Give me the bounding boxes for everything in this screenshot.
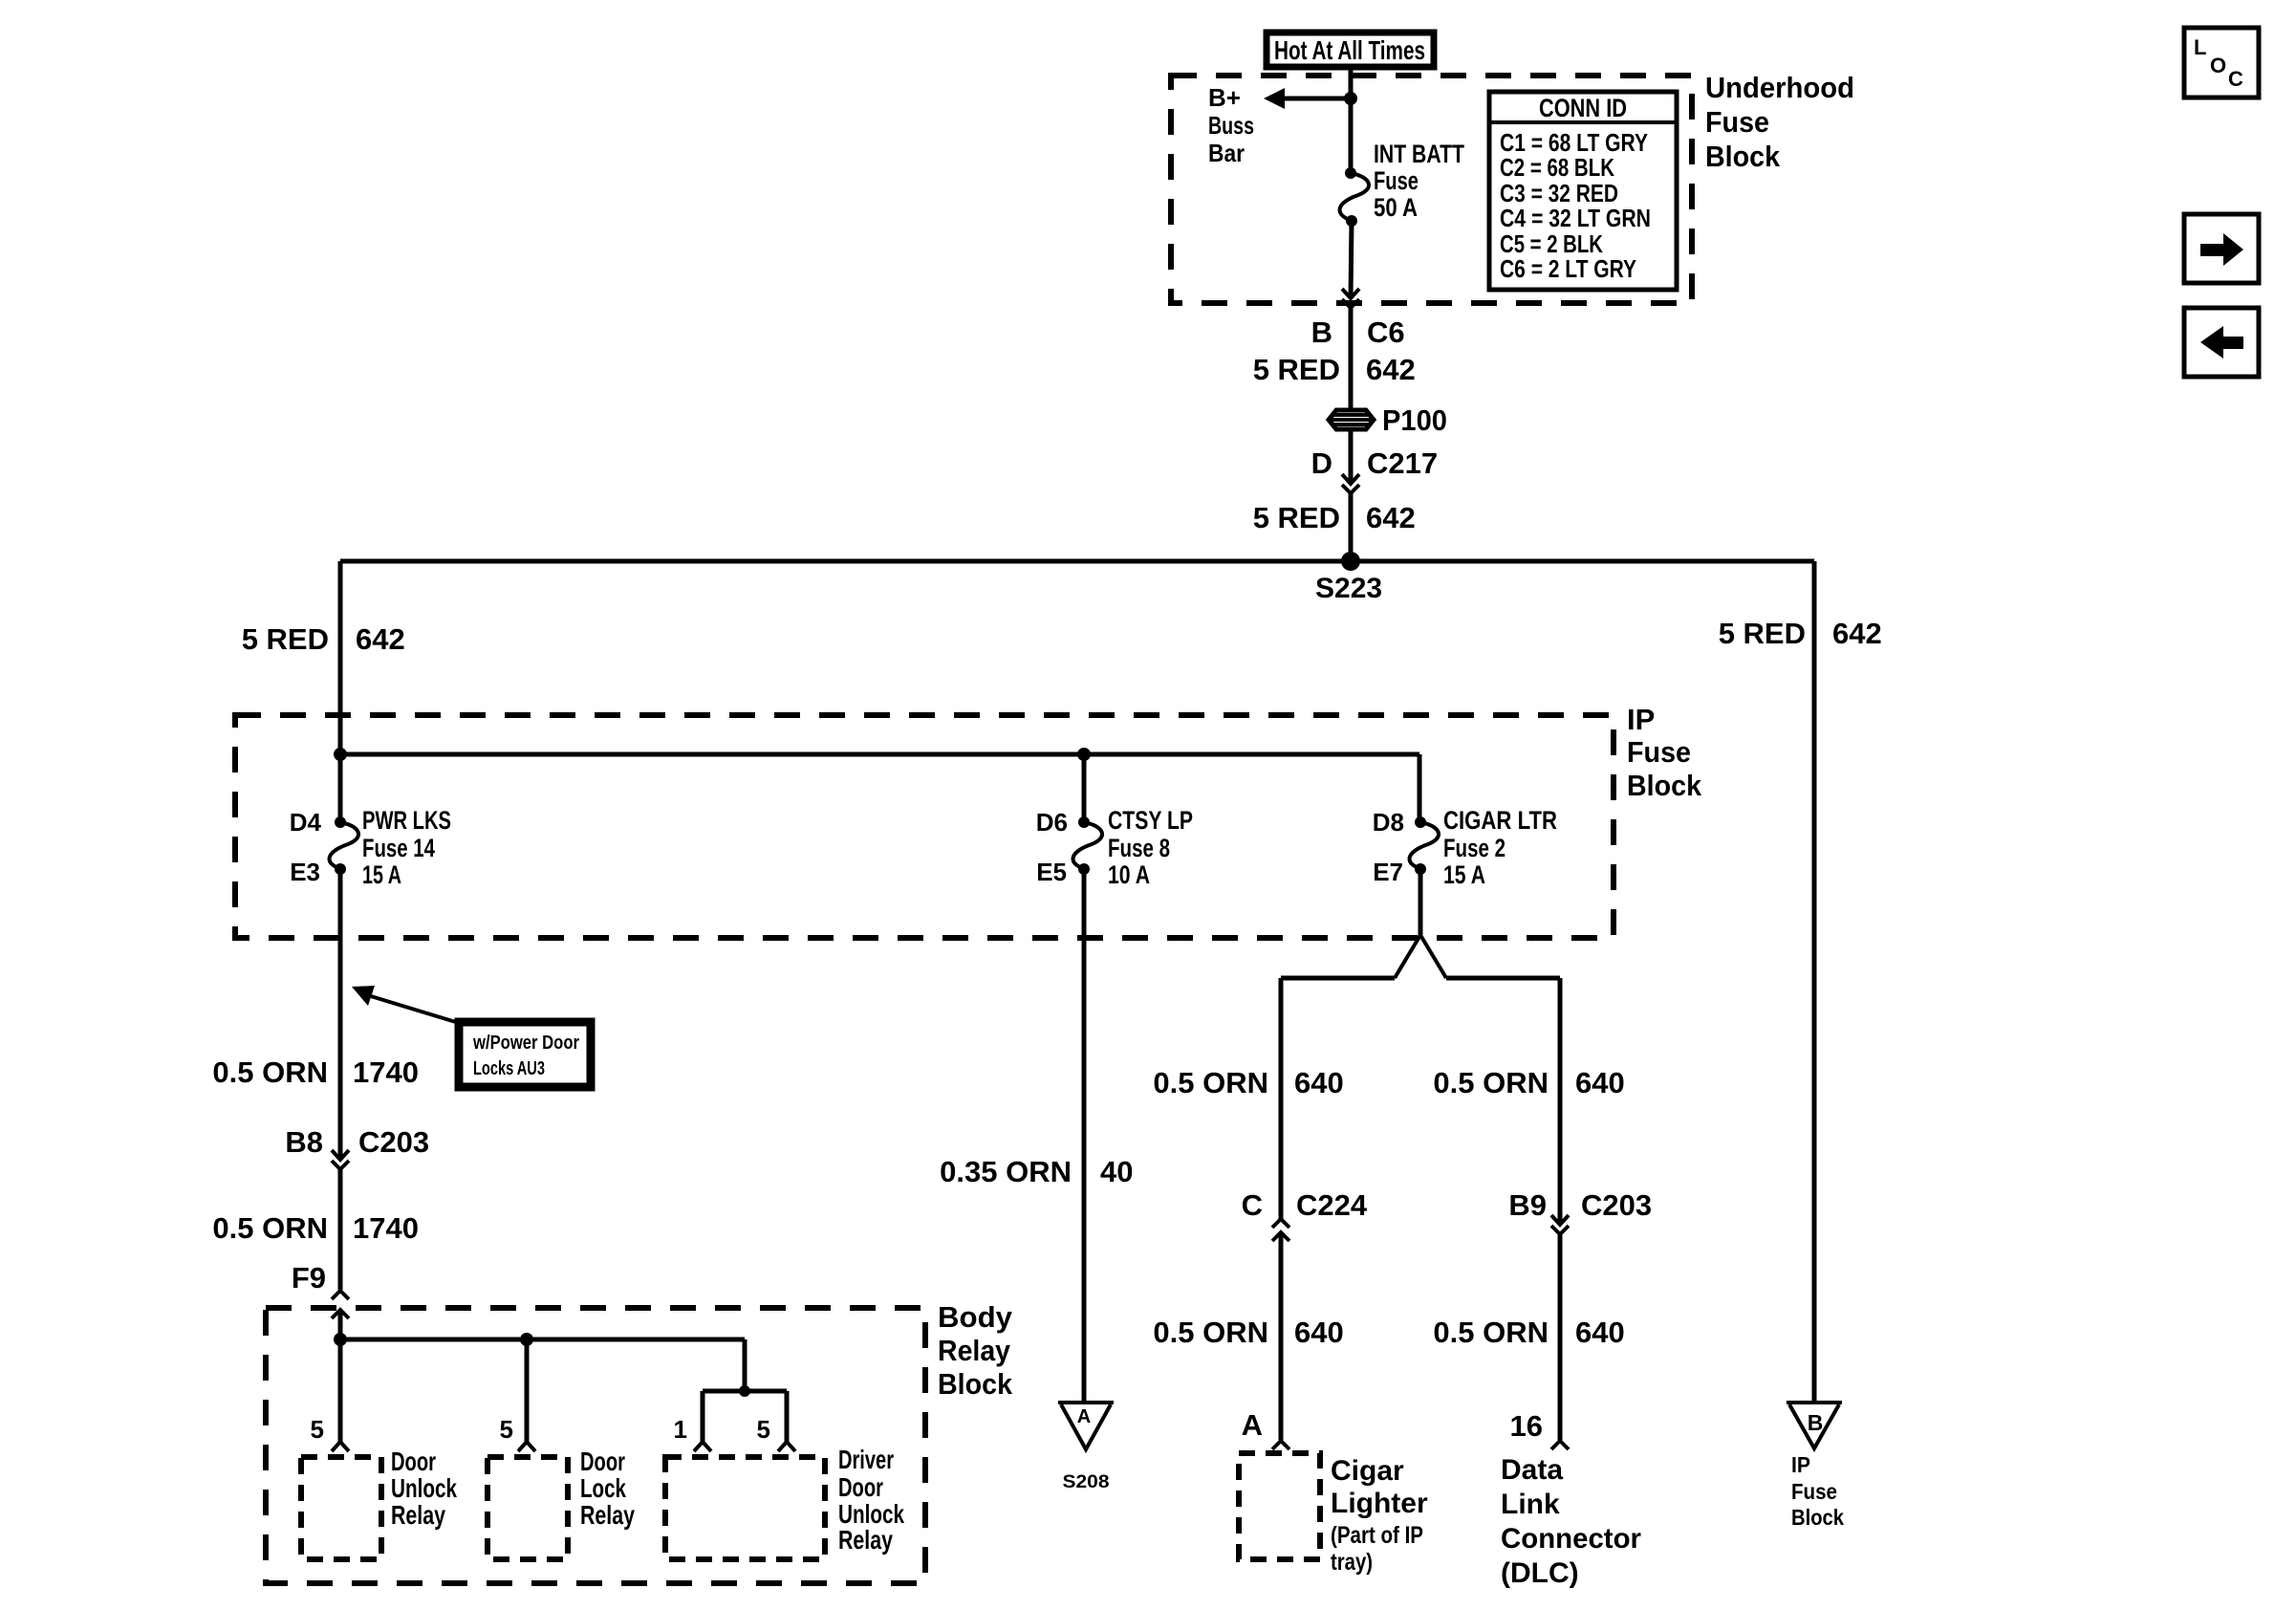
svg-text:10 A: 10 A — [1108, 860, 1150, 889]
Hot At All Times box — [1267, 33, 1434, 67]
svg-text:Fuse 8: Fuse 8 — [1108, 834, 1170, 862]
right branch wire from S223 — [1812, 561, 1817, 1403]
arrow callout to w/Power Door Locks AU3 — [352, 986, 591, 1087]
svg-text:5: 5 — [311, 1415, 324, 1444]
svg-text:Data: Data — [1501, 1454, 1563, 1486]
svg-text:Locks AU3: Locks AU3 — [473, 1058, 545, 1079]
svg-text:640: 640 — [1575, 1316, 1625, 1349]
svg-text:Connector: Connector — [1501, 1523, 1641, 1555]
svg-text:O: O — [2210, 54, 2226, 77]
svg-text:Fuse: Fuse — [1627, 735, 1691, 769]
svg-text:C6 = 2 LT GRY: C6 = 2 LT GRY — [1500, 254, 1636, 283]
connector C / C224 (reversed) — [1242, 1188, 1368, 1440]
connector B9 / C203 — [1508, 1188, 1652, 1440]
Door Lock Relay dashed box — [487, 1447, 635, 1559]
svg-text:D6: D6 — [1036, 808, 1068, 837]
wire label 0.5 ORN 1740 (lower) — [212, 1211, 419, 1245]
svg-text:0.5 ORN: 0.5 ORN — [1433, 1316, 1549, 1349]
Data Link Connector label — [1501, 1454, 1641, 1589]
svg-text:640: 640 — [1575, 1066, 1625, 1099]
B+ buss bar arrow — [1208, 83, 1357, 167]
svg-text:Link: Link — [1501, 1489, 1560, 1520]
svg-text:IP: IP — [1627, 703, 1655, 736]
svg-text:B8: B8 — [285, 1125, 323, 1159]
svg-text:C4 = 32 LT GRN: C4 = 32 LT GRN — [1500, 204, 1651, 232]
svg-text:Cigar: Cigar — [1331, 1455, 1404, 1487]
svg-text:1: 1 — [674, 1415, 687, 1444]
svg-text:CONN ID: CONN ID — [1539, 94, 1627, 122]
svg-text:Driver: Driver — [838, 1445, 894, 1474]
svg-text:E5: E5 — [1036, 858, 1067, 886]
CONN ID table — [1489, 92, 1677, 290]
terminal 16 into DLC — [1510, 1409, 1569, 1449]
IP Fuse Block label — [1627, 703, 1702, 802]
wire to Door Unlock Relay pin 5 — [311, 1339, 349, 1451]
Driver Door Unlock Relay dashed box — [665, 1445, 904, 1559]
Cigar Lighter dashed box — [1239, 1453, 1428, 1576]
body relay internal bus — [334, 1333, 787, 1397]
wire to Door Lock Relay pin 5 — [500, 1339, 535, 1451]
svg-text:Lock: Lock — [580, 1473, 626, 1503]
svg-text:Fuse: Fuse — [1374, 166, 1419, 195]
svg-text:F9: F9 — [292, 1261, 326, 1295]
svg-text:0.5 ORN: 0.5 ORN — [1153, 1066, 1268, 1099]
svg-text:CIGAR LTR: CIGAR LTR — [1443, 806, 1557, 835]
svg-text:0.5 ORN: 0.5 ORN — [1153, 1316, 1268, 1349]
svg-text:C: C — [2228, 67, 2243, 91]
svg-text:(DLC): (DLC) — [1501, 1557, 1579, 1589]
svg-text:642: 642 — [1366, 501, 1416, 534]
svg-text:640: 640 — [1294, 1316, 1344, 1349]
connector B8 / C203 — [285, 1125, 429, 1290]
Door Unlock Relay dashed box — [301, 1447, 457, 1559]
left-arrow legend box — [2184, 308, 2259, 377]
wire label 0.5 ORN 640 (cigar lower) — [1153, 1316, 1343, 1349]
wire from Hot At All Times down to fuse — [1349, 67, 1354, 173]
svg-text:E7: E7 — [1373, 858, 1403, 886]
svg-text:L: L — [2194, 35, 2206, 59]
svg-text:A: A — [1242, 1408, 1263, 1442]
svg-text:Body: Body — [938, 1300, 1013, 1334]
fuse CIGAR LTR Fuse 2 15 A — [1373, 806, 1557, 889]
svg-text:Fuse: Fuse — [1791, 1479, 1837, 1504]
svg-text:E3: E3 — [290, 858, 320, 886]
svg-text:0.5 ORN: 0.5 ORN — [1433, 1066, 1549, 1099]
wire label 0.35 ORN 40 — [940, 1155, 1133, 1188]
svg-text:Block: Block — [1705, 140, 1781, 173]
connector D / C217 — [1311, 430, 1439, 493]
svg-text:Fuse: Fuse — [1705, 105, 1769, 139]
svg-text:Relay: Relay — [391, 1500, 445, 1530]
fuse CTSY LP Fuse 8 10 A — [1036, 754, 1193, 889]
Underhood Fuse Block dashed box — [1171, 76, 1692, 303]
left wire label 5 RED 642 — [242, 622, 405, 656]
connector B / C6 (arrow + chevron through box edge) — [1311, 289, 1405, 409]
wire below CIGAR fuse with Y split — [1281, 869, 1560, 978]
DLC branch wire — [1558, 978, 1563, 1225]
wire label 5 RED 642 (lower) — [1253, 501, 1416, 534]
wire label 5 RED 642 (upper) — [1253, 353, 1416, 386]
left branch wire from S223 — [338, 561, 343, 822]
svg-text:642: 642 — [356, 622, 405, 656]
svg-text:Block: Block — [938, 1367, 1013, 1401]
svg-text:Relay: Relay — [580, 1500, 635, 1530]
svg-text:B: B — [1311, 315, 1332, 349]
wire label 0.5 ORN 640 (DLC lower) — [1433, 1316, 1624, 1349]
svg-text:Fuse 14: Fuse 14 — [362, 834, 435, 862]
svg-text:INT BATT: INT BATT — [1374, 140, 1464, 168]
splice triangle B IP Fuse Block — [1787, 1403, 1844, 1530]
svg-text:Block: Block — [1627, 769, 1702, 802]
svg-text:16: 16 — [1510, 1409, 1543, 1443]
svg-text:S208: S208 — [1063, 1472, 1110, 1492]
wire from fuse to underhood box edge — [1351, 221, 1352, 298]
IP Fuse Block dashed box — [235, 715, 1614, 938]
svg-text:IP: IP — [1791, 1452, 1810, 1477]
svg-text:P100: P100 — [1382, 403, 1447, 437]
svg-text:D4: D4 — [290, 808, 322, 837]
svg-text:642: 642 — [1366, 353, 1416, 386]
svg-text:S223: S223 — [1315, 573, 1382, 604]
svg-text:1740: 1740 — [353, 1211, 419, 1245]
svg-text:0.35 ORN: 0.35 ORN — [940, 1155, 1072, 1188]
svg-text:C6: C6 — [1367, 315, 1405, 349]
svg-text:Block: Block — [1791, 1505, 1844, 1530]
svg-text:Door: Door — [580, 1447, 625, 1476]
svg-text:Lighter: Lighter — [1331, 1488, 1428, 1519]
cigar lighter branch wire — [1279, 978, 1284, 1219]
IP fuse block internal bus — [334, 748, 1419, 822]
svg-text:Hot At All Times: Hot At All Times — [1274, 35, 1425, 65]
svg-text:40: 40 — [1100, 1155, 1133, 1188]
svg-text:5 RED: 5 RED — [1253, 353, 1340, 386]
wire label 0.5 ORN 1740 (upper) — [212, 1055, 419, 1089]
wire label 0.5 ORN 640 (DLC upper) — [1433, 1066, 1624, 1099]
LOC legend box — [2184, 28, 2259, 98]
fuse INT BATT 50 A — [1340, 140, 1465, 227]
right-arrow legend box — [2184, 214, 2259, 283]
svg-text:CTSY LP: CTSY LP — [1108, 806, 1193, 835]
svg-text:0.5 ORN: 0.5 ORN — [212, 1211, 328, 1245]
svg-text:Buss: Buss — [1208, 111, 1254, 140]
svg-text:C203: C203 — [1581, 1188, 1652, 1222]
svg-text:5: 5 — [757, 1415, 770, 1444]
svg-text:Underhood: Underhood — [1705, 71, 1854, 104]
svg-text:640: 640 — [1294, 1066, 1344, 1099]
right wire label 5 RED 642 — [1719, 617, 1882, 650]
svg-text:B9: B9 — [1508, 1188, 1547, 1222]
svg-text:5 RED: 5 RED — [1253, 501, 1340, 534]
svg-text:50 A: 50 A — [1374, 193, 1418, 222]
svg-text:D: D — [1311, 446, 1332, 480]
fuse PWR LKS Fuse 14 15 A — [290, 806, 451, 889]
svg-text:15 A: 15 A — [1443, 860, 1485, 889]
svg-text:A: A — [1077, 1406, 1091, 1427]
svg-text:PWR LKS: PWR LKS — [362, 806, 451, 835]
terminal A into cigar lighter — [1242, 1408, 1289, 1449]
svg-text:w/Power Door: w/Power Door — [472, 1033, 579, 1054]
splice S223 bus — [340, 552, 1814, 604]
grommet P100 — [1329, 403, 1447, 437]
Body Relay Block label — [938, 1300, 1013, 1401]
svg-text:5: 5 — [500, 1415, 513, 1444]
svg-text:D8: D8 — [1373, 808, 1404, 837]
svg-text:C: C — [1242, 1188, 1263, 1222]
svg-text:B+: B+ — [1208, 83, 1241, 112]
svg-text:Door: Door — [391, 1447, 436, 1476]
wire label 0.5 ORN 640 (cigar upper) — [1153, 1066, 1343, 1099]
svg-text:C2 = 68 BLK: C2 = 68 BLK — [1500, 153, 1614, 182]
svg-text:Fuse 2: Fuse 2 — [1443, 834, 1505, 862]
svg-text:B: B — [1808, 1410, 1824, 1435]
svg-text:Unlock: Unlock — [391, 1473, 457, 1503]
wire below PWR LKS fuse to B8 connector — [338, 869, 343, 1160]
Underhood Fuse Block label — [1705, 71, 1854, 173]
svg-text:5 RED: 5 RED — [242, 622, 329, 656]
wire below CTSY fuse to S208 — [1082, 869, 1087, 1403]
svg-text:5 RED: 5 RED — [1719, 617, 1806, 650]
svg-text:Relay: Relay — [938, 1334, 1011, 1367]
Body Relay Block dashed box — [266, 1308, 925, 1583]
wire to S223 — [1349, 493, 1354, 561]
svg-text:tray): tray) — [1331, 1549, 1373, 1576]
svg-text:C203: C203 — [358, 1125, 429, 1159]
svg-text:(Part of IP: (Part of IP — [1331, 1522, 1423, 1549]
svg-text:Door: Door — [838, 1472, 883, 1502]
svg-text:642: 642 — [1832, 617, 1882, 650]
svg-text:Relay: Relay — [838, 1525, 893, 1555]
svg-text:15 A: 15 A — [362, 860, 401, 889]
svg-text:0.5 ORN: 0.5 ORN — [212, 1055, 328, 1089]
connector F9 into Body Relay Block — [292, 1261, 349, 1339]
svg-text:C224: C224 — [1296, 1188, 1368, 1222]
svg-text:C217: C217 — [1367, 446, 1438, 480]
wires to Driver Door Unlock Relay pins 1 and 5 — [674, 1391, 795, 1451]
splice triangle A S208 — [1058, 1403, 1114, 1492]
svg-text:Bar: Bar — [1208, 139, 1245, 167]
svg-text:1740: 1740 — [353, 1055, 419, 1089]
